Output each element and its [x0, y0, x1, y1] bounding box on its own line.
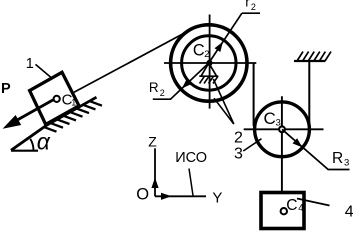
rope pulley2 to pulley3 [253, 63, 255, 126]
radius r2 arrowhead [215, 42, 223, 52]
rope ceiling to pulley3 [308, 61, 310, 127]
svg-text:R: R [149, 80, 159, 95]
svg-text:3: 3 [276, 117, 281, 128]
pulley3 vertical centerline / axle to block4 [281, 96, 283, 193]
svg-text:Z: Z [148, 134, 157, 150]
svg-text:α: α [37, 129, 51, 155]
force P arrowhead [4, 116, 20, 128]
ceiling support line [294, 60, 325, 62]
axis Y line [155, 195, 206, 197]
svg-text:3: 3 [344, 157, 349, 168]
svg-text:3: 3 [234, 145, 243, 162]
leader 3 [243, 139, 261, 151]
angle baseline [11, 150, 38, 152]
pulley2 vertical centerline [209, 15, 211, 109]
svg-text:1: 1 [71, 97, 76, 107]
node C3 center ring [279, 126, 285, 132]
incline hatching [44, 101, 102, 132]
svg-text:O: O [136, 186, 149, 204]
axis Z arrowhead [151, 178, 158, 189]
r2 leader horizontal [242, 12, 260, 14]
pulley2 horizontal centerline [164, 62, 256, 64]
leader 1 [36, 64, 52, 78]
angle alpha arc [30, 139, 33, 151]
svg-text:R: R [332, 150, 343, 167]
svg-text:r: r [245, 0, 250, 10]
radius r2 line [209, 13, 242, 63]
force P shaft [17, 99, 54, 120]
svg-text:2: 2 [204, 49, 209, 60]
svg-text:ИСО: ИСО [175, 150, 207, 166]
svg-text:4: 4 [298, 203, 304, 214]
svg-text:P: P [1, 81, 11, 97]
leader 2 to outer rim [214, 98, 234, 124]
pulley3 circle [255, 102, 310, 157]
leader ISO [189, 169, 193, 196]
svg-text:2: 2 [234, 129, 243, 146]
block 1 body [30, 72, 79, 124]
leader 4 [297, 199, 330, 206]
pivot hatching [200, 76, 219, 83]
node C1 center mark [54, 96, 60, 102]
radius R3 line and leader [282, 129, 350, 169]
svg-text:Y: Y [212, 190, 222, 207]
svg-text:1: 1 [26, 56, 34, 72]
block 4 body [261, 193, 304, 229]
svg-text:2: 2 [160, 88, 165, 98]
pulley3 horizontal centerline [244, 128, 324, 130]
leader 2 to inner rim [213, 79, 234, 124]
pulley2 inner circle [182, 36, 236, 90]
svg-text:C: C [264, 109, 276, 128]
pivot triangle of pulley2 [199, 63, 218, 76]
rope block1 to pulley2 [74, 30, 191, 93]
incline surface line [11, 97, 97, 150]
axis Z line [154, 148, 156, 196]
svg-text:C: C [286, 197, 297, 214]
axis Y arrowhead [161, 193, 172, 200]
pulley2 outer circle [171, 25, 247, 101]
svg-text:C: C [193, 42, 205, 60]
radius R2 arrowhead [182, 79, 192, 89]
radius R3 arrowhead [293, 138, 303, 147]
radius R2 line and leader [153, 63, 209, 99]
ceiling hatching [297, 52, 331, 61]
svg-text:2: 2 [251, 2, 256, 12]
node C4 center mark [281, 208, 287, 214]
pivot center dot [206, 60, 212, 66]
svg-text:4: 4 [345, 203, 353, 220]
